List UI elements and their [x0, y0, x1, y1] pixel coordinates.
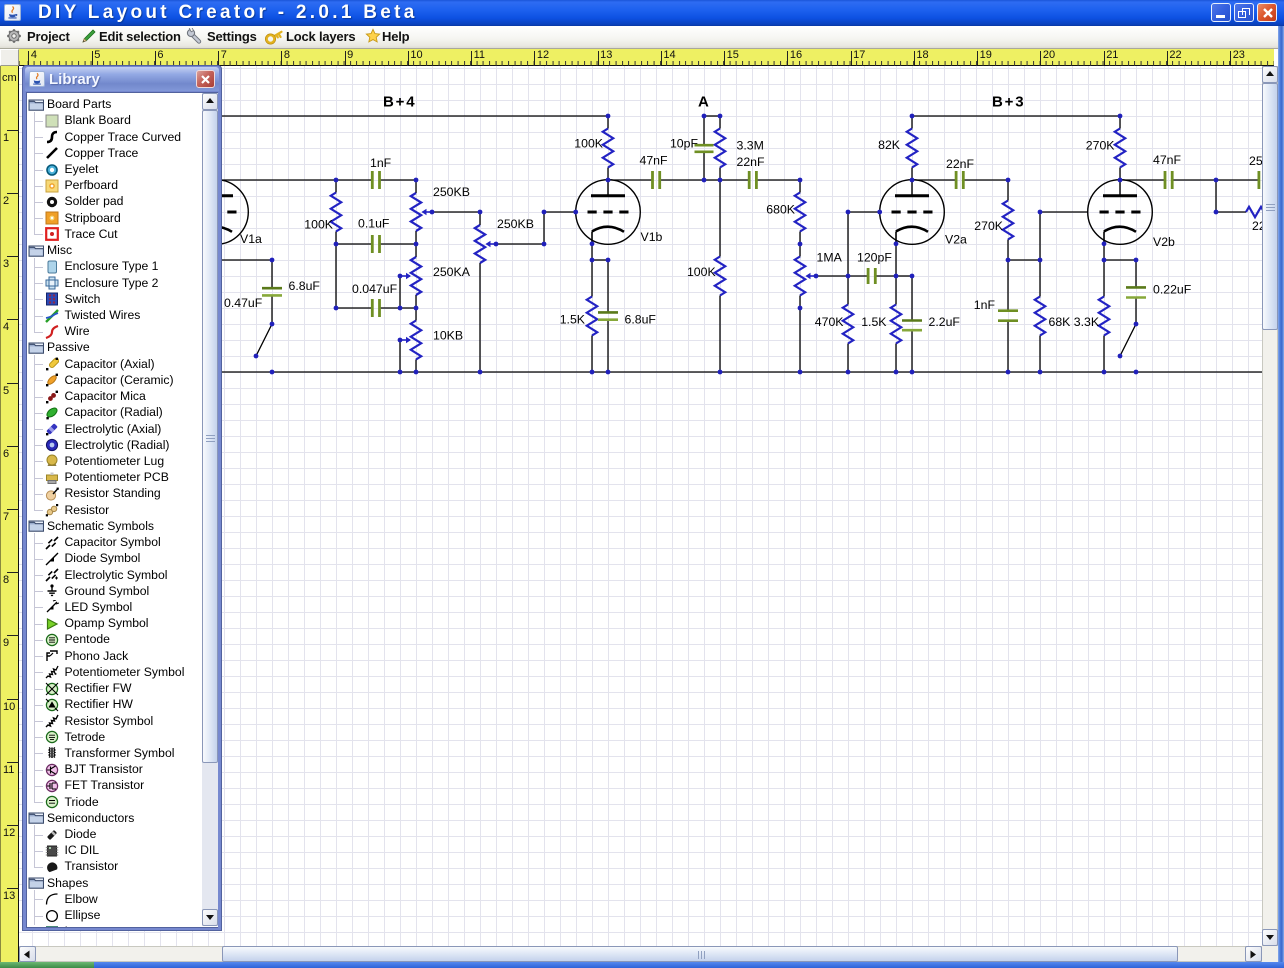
svg-text:2.2uF: 2.2uF: [929, 315, 961, 329]
svg-text:270K: 270K: [974, 219, 1004, 233]
svg-text:250KA: 250KA: [433, 265, 471, 279]
svg-text:1.5K: 1.5K: [861, 315, 887, 329]
svg-text:270K: 270K: [1086, 138, 1116, 152]
svg-text:100K: 100K: [574, 137, 604, 151]
svg-text:V2b: V2b: [1153, 235, 1175, 249]
svg-text:B+3: B+3: [992, 94, 1025, 111]
svg-text:1.5K: 1.5K: [560, 313, 586, 327]
svg-text:0.1uF: 0.1uF: [358, 217, 390, 231]
svg-text:V1b: V1b: [641, 230, 663, 244]
svg-text:470K: 470K: [815, 315, 845, 329]
svg-text:120pF: 120pF: [857, 251, 892, 265]
svg-text:100K: 100K: [687, 265, 717, 279]
svg-text:47nF: 47nF: [1153, 153, 1182, 167]
svg-text:0.22uF: 0.22uF: [1153, 283, 1192, 297]
svg-text:1MA: 1MA: [817, 251, 843, 265]
svg-text:10KB: 10KB: [433, 328, 463, 342]
svg-text:10pF: 10pF: [670, 137, 699, 151]
svg-text:250: 250: [1249, 154, 1262, 168]
svg-text:22nF: 22nF: [737, 155, 766, 169]
svg-text:V2a: V2a: [945, 233, 967, 247]
svg-text:6.8uF: 6.8uF: [289, 279, 321, 293]
svg-text:68K 3.3K: 68K 3.3K: [1049, 315, 1100, 329]
svg-text:3.3M: 3.3M: [737, 139, 764, 153]
svg-text:0.47uF: 0.47uF: [224, 296, 263, 310]
svg-text:V1a: V1a: [240, 232, 262, 246]
svg-text:0.047uF: 0.047uF: [352, 282, 398, 296]
svg-text:1nF: 1nF: [974, 298, 996, 312]
svg-text:220: 220: [1252, 219, 1262, 233]
svg-text:22nF: 22nF: [946, 157, 975, 171]
svg-text:6.8uF: 6.8uF: [625, 313, 657, 327]
svg-text:100K: 100K: [304, 218, 334, 232]
svg-text:680K: 680K: [766, 203, 796, 217]
svg-text:250KB: 250KB: [433, 185, 470, 199]
svg-text:82K: 82K: [878, 138, 901, 152]
svg-text:B+4: B+4: [383, 94, 416, 111]
svg-text:1nF: 1nF: [370, 156, 392, 170]
svg-text:A: A: [698, 94, 711, 111]
svg-text:47nF: 47nF: [640, 154, 669, 168]
svg-text:250KB: 250KB: [497, 217, 534, 231]
